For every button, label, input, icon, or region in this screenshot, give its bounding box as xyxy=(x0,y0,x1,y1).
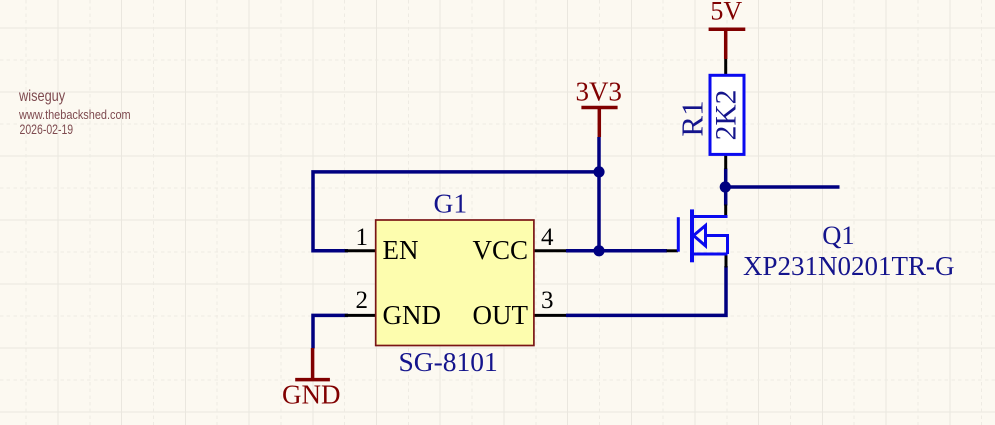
svg-text:5V: 5V xyxy=(710,0,742,26)
svg-text:GND: GND xyxy=(282,380,341,410)
svg-text:XP231N0201TR-G: XP231N0201TR-G xyxy=(743,251,955,281)
svg-text:G1: G1 xyxy=(434,188,468,219)
svg-text:www.thebackshed.com: www.thebackshed.com xyxy=(18,107,131,122)
svg-text:R1: R1 xyxy=(675,100,710,136)
svg-text:2K2: 2K2 xyxy=(711,90,743,141)
svg-text:3: 3 xyxy=(541,287,554,314)
svg-text:1: 1 xyxy=(356,224,369,251)
svg-text:2026-02-19: 2026-02-19 xyxy=(20,122,74,138)
svg-text:wiseguy: wiseguy xyxy=(18,88,66,106)
svg-text:GND: GND xyxy=(383,300,442,330)
svg-text:3V3: 3V3 xyxy=(575,77,622,107)
svg-text:VCC: VCC xyxy=(472,235,528,265)
svg-text:OUT: OUT xyxy=(473,300,529,330)
svg-text:4: 4 xyxy=(541,224,554,251)
svg-text:2: 2 xyxy=(356,287,369,314)
svg-text:Q1: Q1 xyxy=(822,220,854,250)
svg-text:SG-8101: SG-8101 xyxy=(399,346,498,377)
svg-text:EN: EN xyxy=(383,235,419,265)
